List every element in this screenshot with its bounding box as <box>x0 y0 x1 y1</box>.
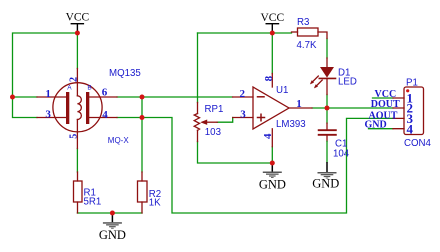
svg-text:4: 4 <box>407 121 414 136</box>
svg-text:LM393: LM393 <box>276 119 306 130</box>
svg-text:1: 1 <box>45 88 51 100</box>
svg-text:GND: GND <box>312 177 339 191</box>
svg-text:5R1: 5R1 <box>84 196 102 207</box>
svg-text:MQ135: MQ135 <box>109 68 141 79</box>
svg-text:VCC: VCC <box>260 12 284 24</box>
svg-text:2: 2 <box>69 77 80 82</box>
svg-text:4: 4 <box>102 109 108 121</box>
svg-text:8: 8 <box>263 75 275 81</box>
svg-text:U1: U1 <box>276 85 288 96</box>
svg-text:104: 104 <box>333 149 350 160</box>
svg-text:2: 2 <box>240 88 246 100</box>
svg-text:LED: LED <box>338 77 357 88</box>
svg-text:5: 5 <box>69 134 80 139</box>
svg-text:DOUT: DOUT <box>371 99 400 110</box>
svg-text:4.7K: 4.7K <box>297 40 317 51</box>
svg-text:CON4: CON4 <box>404 138 432 149</box>
svg-text:MQ-X: MQ-X <box>108 136 130 145</box>
svg-text:GND: GND <box>259 178 286 192</box>
svg-text:A: A <box>67 84 72 91</box>
svg-text:B: B <box>87 84 91 91</box>
svg-text:R3: R3 <box>297 17 309 28</box>
svg-text:RP1: RP1 <box>205 104 224 115</box>
svg-text:GND: GND <box>365 120 387 131</box>
svg-text:3: 3 <box>45 108 51 120</box>
svg-text:GND: GND <box>99 228 126 242</box>
svg-text:6: 6 <box>102 87 108 99</box>
svg-text:4: 4 <box>262 133 274 139</box>
svg-text:3: 3 <box>240 108 246 120</box>
svg-text:103: 103 <box>205 127 221 138</box>
svg-text:1: 1 <box>296 98 302 110</box>
svg-text:P1: P1 <box>406 77 418 88</box>
svg-text:VCC: VCC <box>66 12 90 24</box>
svg-text:1K: 1K <box>149 198 161 209</box>
